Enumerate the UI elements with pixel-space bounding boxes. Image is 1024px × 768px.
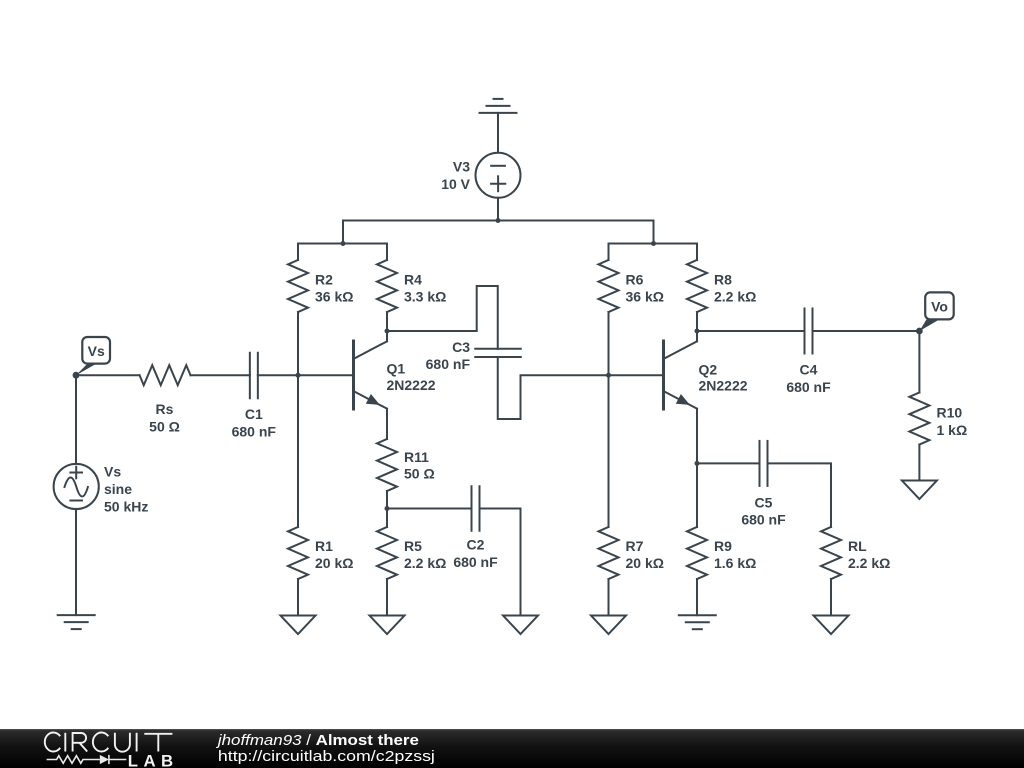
capacitor C5	[760, 441, 768, 486]
footer title	[216, 732, 419, 749]
wire V3 bottom to rail	[497, 198, 499, 221]
node base wire 2 / R6-R7 column	[606, 373, 611, 378]
wire Q1 collector to C3	[387, 286, 498, 349]
wire Vo to R10	[918, 331, 920, 393]
node base wire / R1-R2 column	[296, 373, 301, 378]
svg-text:R6: R6	[626, 271, 644, 287]
wire Q1 emitter to R11	[386, 409, 388, 439]
node Vs junction	[73, 372, 80, 379]
svg-text:C4: C4	[800, 362, 818, 378]
wire RL to ground	[830, 579, 832, 616]
label RL	[848, 538, 890, 571]
svg-text:C1: C1	[245, 406, 263, 422]
voltage source V3	[476, 153, 521, 198]
wire R8 to collector node	[696, 312, 698, 331]
svg-text:680 nF: 680 nF	[741, 512, 786, 528]
resistor R4	[377, 260, 397, 312]
svg-text:50 Ω: 50 Ω	[404, 466, 435, 482]
wire C2 to ground column	[480, 509, 521, 616]
svg-text:10 V: 10 V	[441, 176, 470, 192]
svg-text:R8: R8	[714, 271, 732, 287]
resistor R2	[288, 260, 308, 312]
transistor Q1	[354, 331, 388, 409]
label C2	[453, 537, 498, 570]
svg-text:20 kΩ: 20 kΩ	[626, 555, 664, 571]
label C5	[741, 494, 786, 527]
transistor Q2	[664, 331, 698, 409]
ground (triangle) under R10	[902, 481, 937, 500]
svg-text:C5: C5	[755, 494, 773, 510]
wire node to R9	[696, 463, 698, 527]
resistor Rs	[140, 365, 191, 385]
ground (triangle) under RL	[814, 616, 849, 635]
svg-text:2.2 kΩ: 2.2 kΩ	[848, 555, 890, 571]
svg-text:Vs: Vs	[104, 464, 121, 480]
wire rail stub right	[653, 221, 655, 244]
svg-text:http://circuitlab.com/c2pzssj: http://circuitlab.com/c2pzssj	[218, 748, 435, 765]
wire C1 to Q1 base	[258, 374, 354, 376]
capacitor C2	[472, 486, 480, 531]
node Q2 collector	[695, 329, 700, 334]
label R10	[937, 405, 968, 438]
svg-text:jhoffman93 / Almost there: jhoffman93 / Almost there	[216, 732, 419, 749]
svg-text:680 nF: 680 nF	[786, 379, 831, 395]
svg-text:Vs: Vs	[88, 343, 105, 359]
node flag Vs	[76, 337, 110, 375]
wire R4 to collector node	[386, 312, 388, 331]
wire R8 lead top	[696, 244, 698, 261]
resistor RL	[821, 527, 841, 579]
svg-text:3.3 kΩ: 3.3 kΩ	[404, 289, 446, 305]
wire R5 to ground	[386, 579, 388, 616]
wire R2 to R1	[297, 312, 299, 527]
node R2-R4 tee	[341, 241, 346, 246]
ground (earth) under R9	[679, 615, 716, 629]
wire R2 lead top	[297, 244, 299, 261]
label V3	[441, 159, 470, 193]
svg-text:Rs: Rs	[156, 401, 174, 417]
source Vs (sine)	[54, 464, 99, 509]
wire R6 lead top	[608, 244, 610, 261]
resistor R11	[377, 439, 397, 491]
label C1	[232, 406, 277, 439]
ground (triangle) under C2	[503, 616, 538, 635]
svg-text:R1: R1	[315, 538, 333, 554]
node supply rail / V3	[496, 218, 501, 223]
svg-text:sine: sine	[104, 481, 132, 497]
wire Vs source to ground	[75, 509, 77, 615]
svg-text:20 kΩ: 20 kΩ	[315, 555, 353, 571]
label Vs source	[104, 464, 148, 515]
wire Vs to Rs	[76, 374, 140, 376]
label C3	[426, 339, 471, 372]
label R1	[315, 538, 353, 571]
resistor R5	[377, 527, 397, 579]
label R4	[404, 271, 446, 304]
resistor R1	[288, 527, 308, 579]
label Q2	[699, 361, 748, 393]
wire Vs down	[75, 375, 77, 464]
node Q2 emitter / R9 / C5	[695, 461, 700, 466]
wire R6-R8 top	[609, 243, 698, 245]
label R5	[404, 538, 446, 571]
svg-text:V3: V3	[453, 159, 470, 175]
svg-text:1 kΩ: 1 kΩ	[937, 422, 968, 438]
label R8	[714, 271, 756, 304]
resistor R10	[909, 393, 929, 445]
svg-text:680 nF: 680 nF	[232, 423, 277, 439]
svg-text:R10: R10	[937, 405, 963, 421]
ground (triangle) under R7	[591, 616, 626, 635]
wire R4 lead top	[386, 244, 388, 261]
wire R1 to ground	[297, 579, 299, 616]
label C4	[786, 362, 831, 395]
svg-text:C3: C3	[452, 339, 470, 355]
svg-text:R9: R9	[714, 538, 732, 554]
resistor R9	[687, 527, 707, 579]
resistor R8	[687, 260, 707, 312]
wire R6 to R7	[608, 312, 610, 527]
svg-text:680 nF: 680 nF	[453, 554, 498, 570]
svg-text:36 kΩ: 36 kΩ	[626, 289, 664, 305]
label Q1	[387, 361, 436, 393]
wire R10 to ground	[918, 445, 920, 481]
ground (earth, inverted) above V3	[480, 99, 517, 113]
svg-text:Vo: Vo	[931, 299, 948, 315]
node flag Vo	[919, 292, 953, 331]
node Q1 collector	[385, 329, 390, 334]
resistor R6	[599, 260, 619, 312]
capacitor C4	[805, 309, 813, 354]
ground (triangle) under R5	[370, 616, 405, 635]
wire R7 to ground	[608, 579, 610, 616]
label R2	[315, 271, 353, 304]
label R11	[404, 449, 435, 482]
wire supply rail	[343, 220, 654, 222]
node Vo junction	[916, 328, 923, 335]
wire C5 to RL	[768, 463, 832, 527]
label R7	[626, 538, 664, 571]
wire rail stub left	[342, 221, 344, 244]
wire C3 to Q2 base	[498, 357, 664, 419]
wire C4 to Vo	[813, 330, 920, 332]
logo LAB	[128, 751, 179, 768]
svg-text:50 kHz: 50 kHz	[104, 499, 148, 515]
wire Q2 emitter down	[696, 409, 698, 464]
footer bar	[0, 729, 1024, 768]
capacitor C3	[475, 349, 521, 357]
svg-text:36 kΩ: 36 kΩ	[315, 289, 353, 305]
svg-text:LAB: LAB	[128, 751, 179, 768]
footer url	[218, 748, 435, 765]
svg-text:50 Ω: 50 Ω	[149, 418, 180, 434]
svg-text:R5: R5	[404, 538, 422, 554]
label R9	[714, 538, 756, 571]
wire emitter node to C5	[697, 462, 760, 464]
ground (earth) under Vs	[58, 615, 95, 629]
ground (triangle) under R1	[281, 616, 316, 635]
svg-text:2.2 kΩ: 2.2 kΩ	[714, 289, 756, 305]
svg-text:680 nF: 680 nF	[426, 356, 471, 372]
logo squiggle (resistor + diode)	[47, 755, 127, 764]
wire Q2 collector to C4	[697, 330, 805, 332]
svg-text:R11: R11	[404, 449, 429, 465]
svg-text:Q2: Q2	[699, 361, 718, 377]
label Rs	[149, 401, 180, 434]
svg-text:RL: RL	[848, 538, 867, 554]
wire node to R5	[386, 509, 388, 528]
svg-text:2N2222: 2N2222	[699, 378, 748, 394]
node R6-R8 tee	[651, 241, 656, 246]
svg-text:C2: C2	[467, 537, 485, 553]
wire R9 to ground	[696, 579, 698, 615]
capacitor C1	[250, 353, 258, 399]
svg-text:R2: R2	[315, 271, 333, 287]
svg-text:R4: R4	[404, 271, 422, 287]
wire Rs to C1	[191, 374, 250, 376]
wire V3 top to ground	[497, 113, 499, 153]
label R6	[626, 271, 664, 304]
svg-text:1.6 kΩ: 1.6 kΩ	[714, 555, 756, 571]
wire node to C2	[387, 508, 472, 510]
svg-text:R7: R7	[626, 538, 644, 554]
wire R2-R4 top	[298, 243, 387, 245]
svg-text:2N2222: 2N2222	[387, 377, 436, 393]
node R11-R5-C2	[385, 506, 390, 511]
resistor R7	[599, 527, 619, 579]
svg-text:Q1: Q1	[387, 361, 406, 377]
wire R11 to node	[386, 491, 388, 509]
svg-text:2.2 kΩ: 2.2 kΩ	[404, 555, 446, 571]
logo CIRCUIT	[45, 732, 173, 751]
